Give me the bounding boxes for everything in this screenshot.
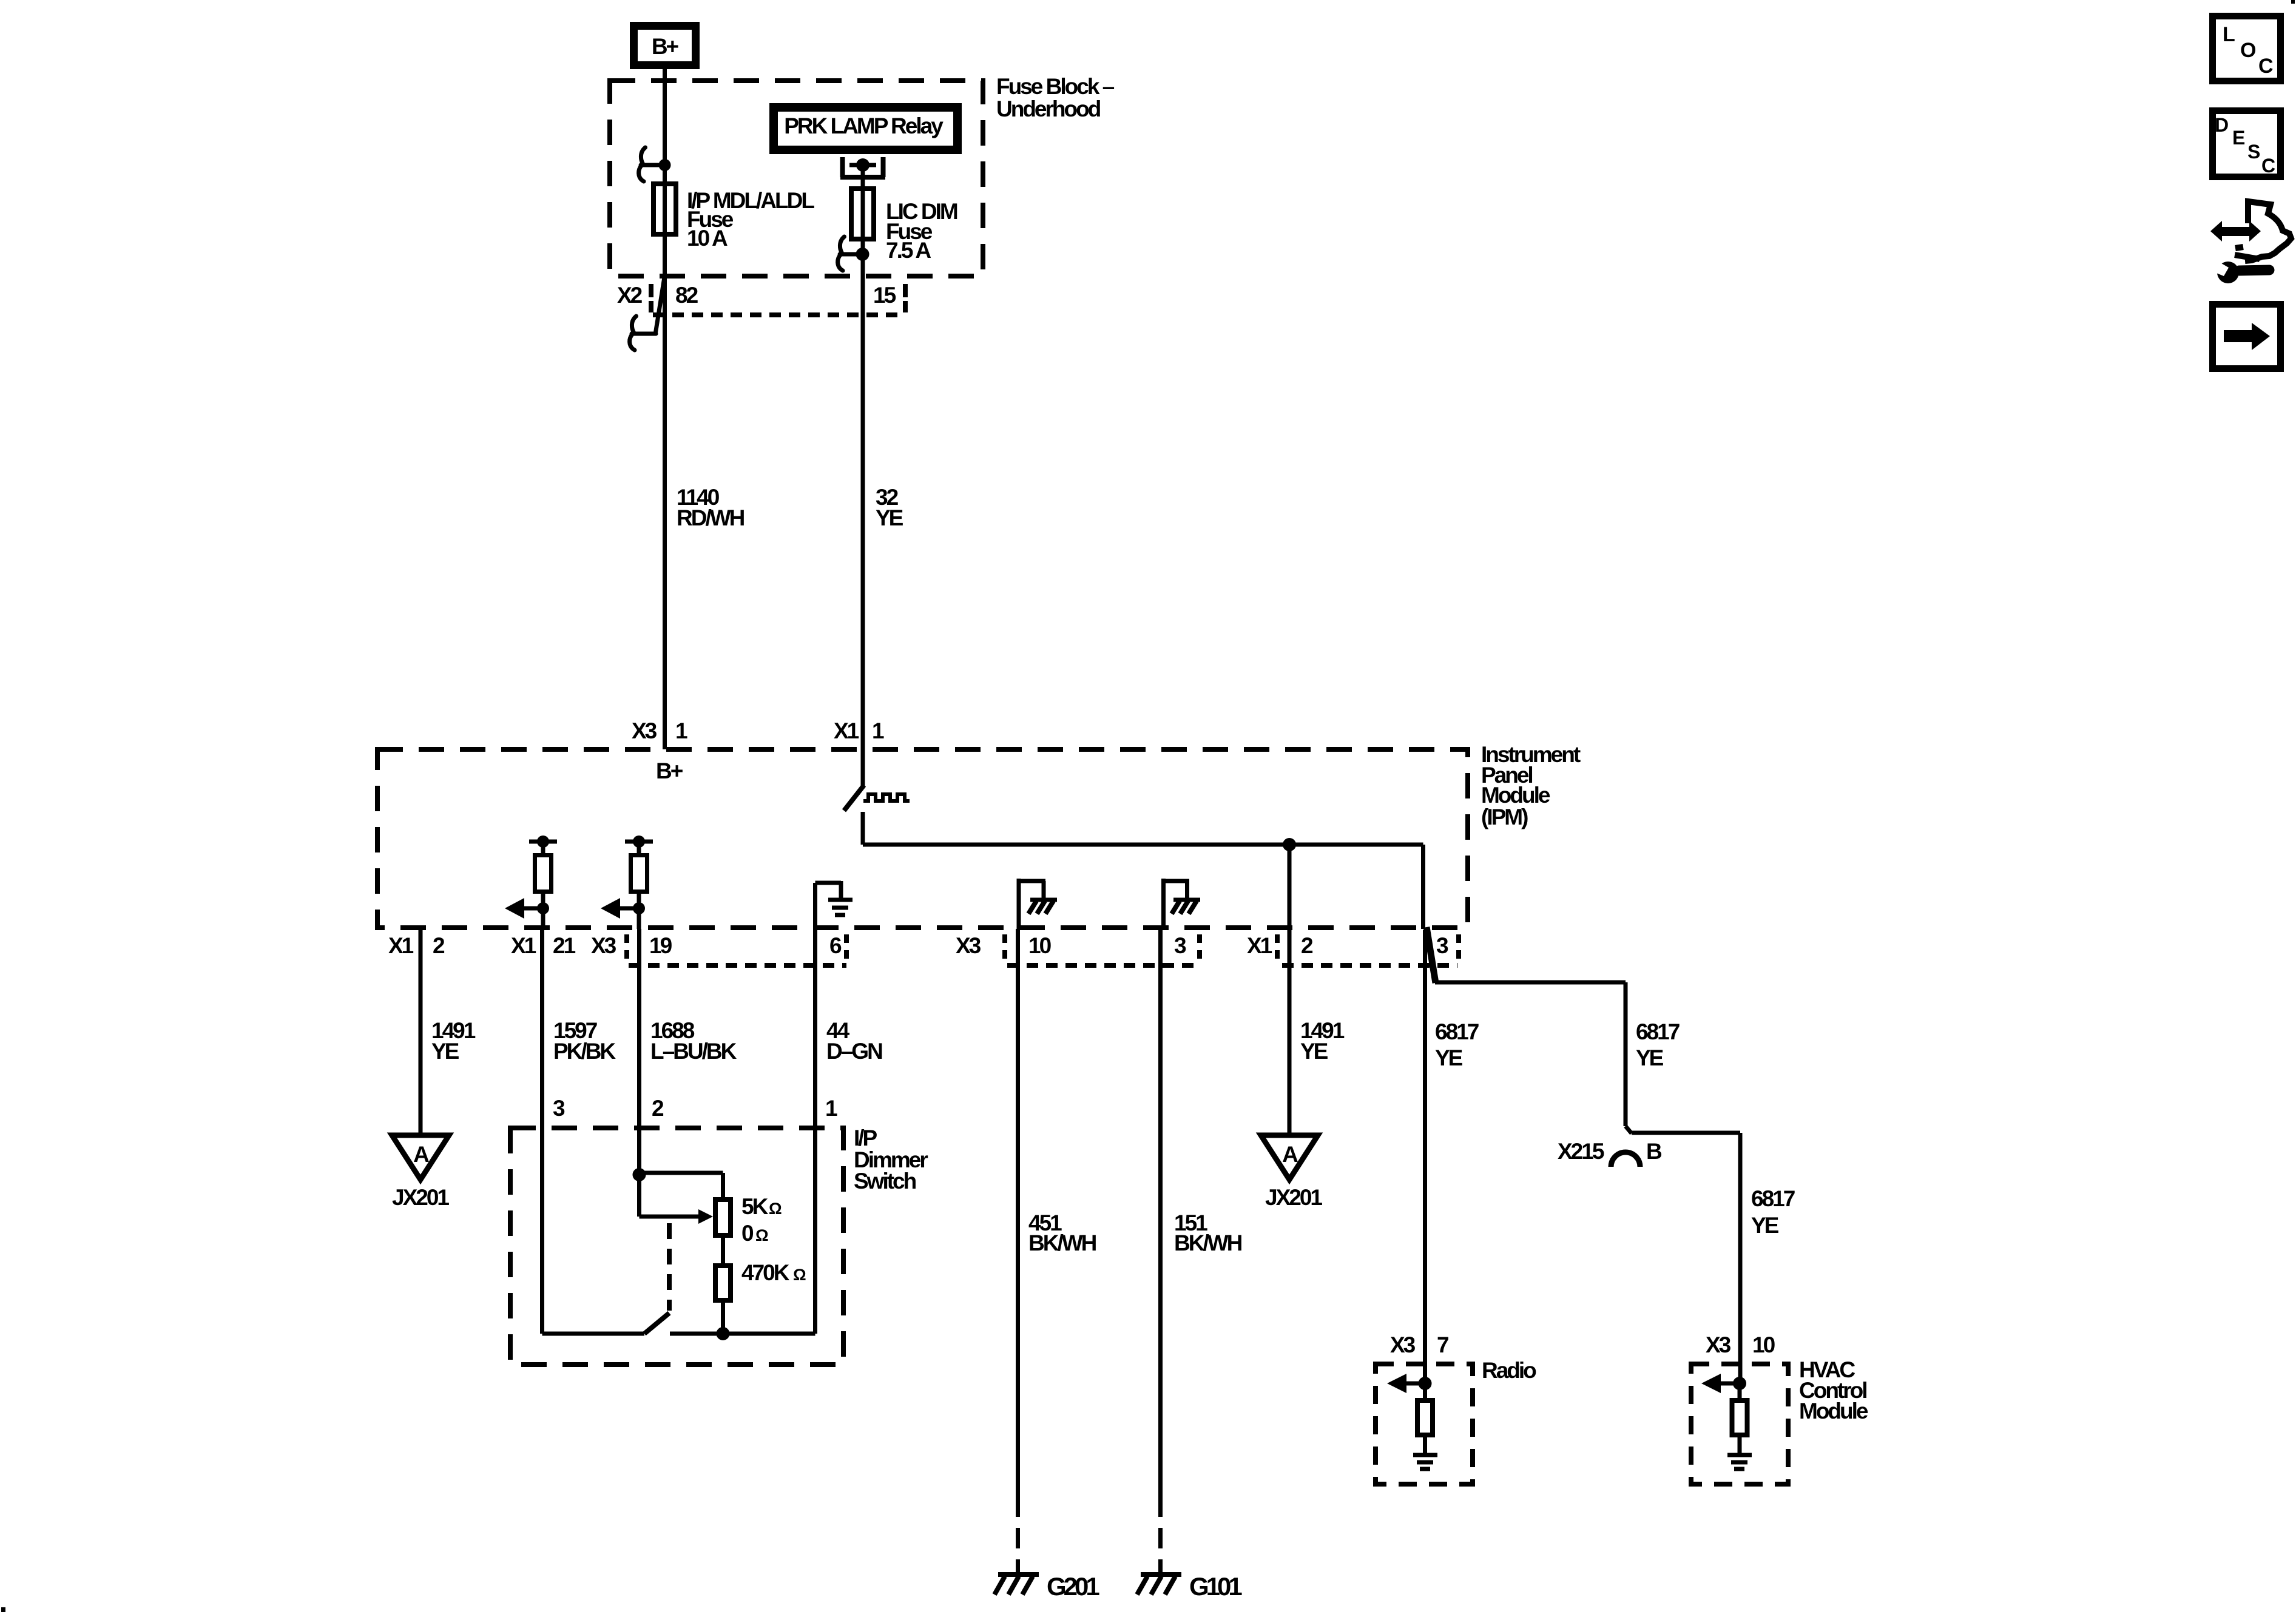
svg-text:A: A — [1282, 1142, 1298, 1167]
svg-text:Ω: Ω — [755, 1226, 768, 1244]
dimmer switch pin labels 3 2 1 — [553, 1096, 837, 1121]
svg-text:G201: G201 — [1047, 1572, 1099, 1601]
arrow output of R1 — [505, 898, 549, 919]
svg-text:1: 1 — [675, 718, 687, 743]
fuse 2 label — [886, 199, 957, 263]
svg-text:X1: X1 — [1247, 933, 1272, 958]
svg-text:B+: B+ — [652, 34, 679, 59]
svg-text:2: 2 — [652, 1096, 664, 1121]
svg-text:YE: YE — [431, 1039, 459, 1064]
svg-text:Fuse Block –: Fuse Block – — [996, 74, 1115, 99]
svg-text:21: 21 — [553, 933, 576, 958]
junction node on switch output — [1283, 838, 1296, 929]
svg-text:82: 82 — [675, 283, 698, 308]
radio internal resistor — [1417, 1383, 1433, 1453]
inline connector X215 pin B — [1558, 1126, 1662, 1167]
wrench icon — [2210, 259, 2269, 283]
fuse I/P MDL/ALDL 10A — [653, 184, 676, 234]
wire label 1491 YE — [431, 1018, 476, 1064]
svg-text:E: E — [2232, 127, 2245, 149]
wire from relay through LIC DIM fuse down to IPM (32 circuit) — [861, 165, 865, 749]
svg-text:RD/WH: RD/WH — [677, 505, 745, 530]
svg-text:1: 1 — [872, 718, 884, 743]
svg-text:19: 19 — [649, 933, 672, 958]
potentiometer wiper feed inside dimmer — [633, 1168, 723, 1217]
clamp terminal at X2 connector — [630, 316, 656, 350]
IPM bottom pin labels X3 19 with connector box — [591, 933, 846, 966]
svg-text:X1: X1 — [511, 933, 536, 958]
svg-text:10: 10 — [1028, 933, 1052, 958]
wire from B+ into fuse block (1140 circuit) — [663, 69, 667, 749]
svg-text:BK/WH: BK/WH — [1028, 1230, 1096, 1255]
splice pack triangle JX201 left — [392, 1135, 449, 1210]
splice pack triangle JX201 right — [1261, 1135, 1322, 1210]
wire label 1688 L-BU/BK — [650, 1018, 737, 1064]
IPM bottom pin labels X3 10 / 3 with connector box — [956, 933, 1200, 966]
relay output terminal bracket — [840, 157, 885, 177]
connector labels X1 1 at IPM top — [834, 718, 884, 743]
connector labels X3 1 at IPM top — [632, 718, 687, 743]
svg-text:X1: X1 — [388, 933, 414, 958]
dashed actuator linkage — [667, 1223, 672, 1311]
I/P dimmer switch dashed box — [510, 1128, 843, 1365]
svg-text:(IPM): (IPM) — [1481, 805, 1528, 829]
wire from switch to junction and pin 3 — [863, 845, 1423, 929]
wire label 44 D-GN — [826, 1018, 882, 1064]
wire pin X3-19 to dimmer pin 2 (1688) — [637, 929, 641, 1175]
wire label 1597 PK/BK — [553, 1018, 616, 1064]
svg-text:10: 10 — [1752, 1332, 1775, 1357]
svg-text:PRK LAMP Relay: PRK LAMP Relay — [784, 113, 944, 138]
wire label 6817 YE right — [1751, 1186, 1795, 1238]
dimmer switch label — [854, 1126, 928, 1193]
svg-text:5K: 5K — [741, 1194, 769, 1219]
svg-text:Radio: Radio — [1482, 1358, 1536, 1383]
wire label 1491 YE right — [1300, 1018, 1345, 1064]
svg-text:L–BU/BK: L–BU/BK — [650, 1039, 737, 1064]
svg-text:X3: X3 — [1706, 1332, 1731, 1357]
connector X2 row: ticks and dotted strip — [651, 284, 905, 315]
wire label 151 BK/WH — [1174, 1210, 1242, 1255]
wire pin 3 to G101 (151) — [1158, 929, 1163, 1573]
svg-text:C: C — [2261, 155, 2275, 177]
svg-text:2: 2 — [433, 933, 445, 958]
instrument panel module dashed box — [377, 749, 1468, 928]
svg-text:X3: X3 — [1390, 1332, 1416, 1357]
HVAC control module dashed box — [1691, 1357, 1868, 1484]
svg-text:3: 3 — [553, 1096, 565, 1121]
svg-text:JX201: JX201 — [1265, 1185, 1322, 1210]
svg-text:B+: B+ — [656, 758, 683, 783]
chassis ground G201 — [994, 1572, 1099, 1601]
wire label 6817 YE middle — [1636, 1019, 1680, 1070]
svg-text:L: L — [2223, 23, 2235, 46]
fuse LIC DIM 7.5A — [851, 189, 874, 239]
resistor 470K ohm — [715, 1238, 806, 1334]
svg-text:15: 15 — [873, 283, 896, 308]
connector X2 pass-through jog on wire 1 — [655, 277, 664, 334]
svg-text:PK/BK: PK/BK — [553, 1039, 616, 1064]
svg-text:D–GN: D–GN — [826, 1039, 882, 1064]
svg-text:0: 0 — [741, 1221, 754, 1246]
svg-text:470K: 470K — [741, 1260, 790, 1285]
wire label 32 YE — [876, 485, 903, 530]
svg-text:D: D — [2215, 114, 2229, 136]
svg-text:B: B — [1646, 1139, 1662, 1164]
svg-text:C: C — [2258, 55, 2274, 78]
svg-text:7: 7 — [1437, 1332, 1448, 1357]
svg-text:O: O — [2240, 39, 2256, 62]
resistor R2 inside IPM (1688 output) — [625, 836, 653, 929]
svg-text:3: 3 — [1174, 933, 1186, 958]
HVAC internal ground — [1727, 1455, 1752, 1469]
wire X215 to HVAC — [1632, 1133, 1740, 1383]
wire pin X1-2 (right) to JX201 (1491) — [1288, 929, 1292, 1135]
svg-text:X3: X3 — [591, 933, 616, 958]
fuse block - underhood dashed box — [610, 81, 983, 276]
square wave symbol — [863, 794, 910, 801]
svg-text:6: 6 — [829, 933, 842, 958]
dimmer switch blade — [644, 1313, 669, 1334]
DESC legend box — [2213, 111, 2281, 177]
svg-text:Underhood: Underhood — [996, 96, 1101, 121]
connector X2 pin labels — [617, 283, 896, 308]
svg-text:6817: 6817 — [1435, 1019, 1479, 1044]
fuse block label — [996, 74, 1115, 121]
svg-text:7.5 A: 7.5 A — [886, 238, 931, 263]
wire label 6817 YE left — [1435, 1019, 1479, 1070]
svg-text:X3: X3 — [632, 718, 657, 743]
power symbol B+ battery feed box — [634, 26, 696, 66]
relay box PRK LAMP Relay — [774, 107, 957, 150]
resistor 5K ohm — [715, 1194, 782, 1235]
radio dashed box — [1376, 1358, 1536, 1484]
chassis ground inside IPM at pin X3-10 — [1019, 879, 1057, 929]
connector labels X3 7 at radio — [1390, 1332, 1448, 1357]
svg-text:BK/WH: BK/WH — [1174, 1230, 1242, 1255]
IPM bottom pin labels X1 2 — [388, 933, 445, 958]
connector labels X3 10 at HVAC — [1706, 1332, 1775, 1357]
svg-text:S: S — [2247, 141, 2260, 163]
svg-text:Switch: Switch — [854, 1169, 916, 1193]
svg-text:Module: Module — [1799, 1399, 1868, 1423]
radio internal ground — [1413, 1455, 1437, 1469]
svg-text:X215: X215 — [1558, 1139, 1604, 1164]
ground symbol inside IPM at pin 6 — [815, 881, 853, 929]
HVAC internal resistor — [1732, 1383, 1747, 1453]
node B+ inside IPM — [656, 758, 683, 783]
svg-text:YE: YE — [1751, 1213, 1779, 1238]
PWM dimming switch inside IPM — [844, 749, 864, 845]
wire 6817 to X215 — [1435, 982, 1626, 1126]
clamp terminal on wire above fuse 1 — [639, 147, 671, 181]
svg-text:3: 3 — [1436, 933, 1448, 958]
svg-text:6817: 6817 — [1751, 1186, 1795, 1211]
svg-text:YE: YE — [876, 505, 903, 530]
hand with double arrow icon — [2210, 201, 2291, 261]
svg-text:YE: YE — [1636, 1045, 1664, 1070]
resistor R1 inside IPM (1597 output) — [529, 836, 557, 929]
chassis ground inside IPM at pin 3 — [1164, 879, 1201, 929]
IPM bottom pin labels X1 21 — [511, 933, 576, 958]
svg-text:YE: YE — [1300, 1039, 1328, 1064]
svg-text:JX201: JX201 — [392, 1185, 449, 1210]
IPM bottom pin labels X1 2 / 3 with connector box — [1247, 933, 1459, 966]
wiper arrow into 5K resistor — [698, 1209, 713, 1224]
dimmer bottom bus wire and junction — [542, 1327, 815, 1340]
svg-text:X1: X1 — [834, 718, 859, 743]
fuse 1 label — [687, 188, 814, 251]
IPM label — [1481, 742, 1581, 829]
wire pin X3-10 to G201 (451) — [1016, 929, 1020, 1573]
wire pin X1-21 to dimmer pin 3 (1597) — [540, 929, 544, 1334]
HVAC internal arrow — [1701, 1374, 1746, 1393]
wire pin X1-2 to JX201 (1491) — [419, 929, 423, 1135]
svg-text:6817: 6817 — [1636, 1019, 1680, 1044]
svg-text:Ω: Ω — [769, 1200, 782, 1218]
wire pin 3 jog to 6817 branch — [1425, 927, 1436, 1383]
radio internal arrow — [1387, 1374, 1432, 1393]
svg-text:X2: X2 — [617, 283, 643, 308]
clamp terminal below fuse 2 — [838, 237, 869, 271]
arrow output of R2 — [601, 898, 645, 919]
chassis ground G101 — [1137, 1572, 1242, 1601]
svg-text:YE: YE — [1435, 1045, 1463, 1070]
wire pin 6 to dimmer pin 1 (44) — [813, 929, 817, 1334]
svg-text:I/P: I/P — [854, 1126, 877, 1150]
svg-text:G101: G101 — [1189, 1572, 1242, 1601]
wire label 1140 RD/WH — [677, 485, 745, 530]
LOC legend box — [2213, 16, 2281, 81]
svg-text:Module: Module — [1481, 783, 1550, 808]
label 0 ohm — [741, 1221, 768, 1246]
wire label 451 BK/WH — [1028, 1210, 1096, 1255]
svg-text:Ω: Ω — [793, 1266, 806, 1284]
svg-text:2: 2 — [1301, 933, 1313, 958]
svg-text:10 A: 10 A — [687, 226, 728, 251]
arrow legend box — [2213, 305, 2281, 369]
svg-text:1: 1 — [825, 1096, 837, 1121]
svg-text:X3: X3 — [956, 933, 981, 958]
svg-text:A: A — [413, 1142, 429, 1167]
